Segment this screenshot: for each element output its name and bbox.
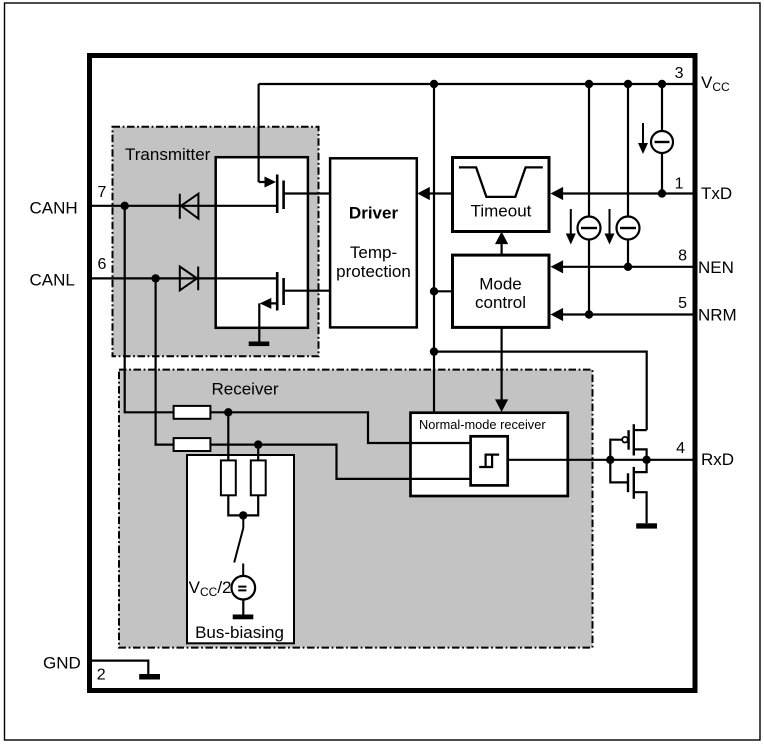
- svg-text:GND: GND: [43, 653, 81, 672]
- svg-text:TxD: TxD: [701, 184, 732, 203]
- node I1 top: [585, 80, 593, 88]
- transistor Q2 gate bar: [282, 278, 285, 305]
- transistor Q4 (RxD N-MOS) gate wire: [610, 460, 627, 483]
- mode control block: [453, 255, 550, 327]
- wire CANH to termination resistor R1: [125, 206, 174, 412]
- transistor Q1 (high-side P-MOS) channel: [276, 175, 279, 214]
- svg-text:3: 3: [675, 65, 684, 82]
- wire to RxD output stage supply: [434, 352, 647, 431]
- wire mode control to normal-mode receiver: [501, 327, 503, 399]
- node at 434/351: [430, 347, 438, 355]
- switch S1 (bus biasing): [234, 515, 243, 576]
- voltage source VCC/2: [232, 576, 256, 600]
- wire CANL to termination resistor R2: [156, 278, 174, 444]
- wire Q2 gate to driver: [284, 290, 331, 292]
- transistor Q4 gate bar: [627, 473, 629, 492]
- timeout pulse waveform: [459, 167, 543, 197]
- arrow into timeout right: [551, 187, 564, 200]
- driver block U-drv: [330, 158, 417, 327]
- node at VCC/434: [430, 80, 438, 88]
- svg-text:protection: protection: [336, 262, 411, 281]
- arrow at Q2 source: [260, 298, 272, 309]
- resistor R1: [174, 406, 211, 419]
- current source I3 circle: [651, 131, 673, 153]
- svg-text:CANH: CANH: [30, 198, 78, 217]
- arrow into timeout: [495, 232, 508, 245]
- current source I1 circle: [578, 217, 601, 240]
- transmitter output-stage box: [216, 157, 308, 328]
- current source I2 circle: [617, 217, 640, 240]
- wire Q4 source to ground: [634, 492, 647, 523]
- node I2 top: [624, 80, 632, 88]
- wire timeout output to driver: [429, 192, 453, 194]
- wire NEN pin to mode control: [562, 266, 697, 268]
- wire receiver inputs inside box: [411, 443, 471, 479]
- wire stub to mode control: [434, 290, 453, 292]
- ground (bus biasing): [233, 615, 254, 620]
- ground (RxD stage): [636, 523, 657, 528]
- wire Q2 source to ground: [259, 303, 277, 341]
- svg-text:7: 7: [98, 184, 107, 201]
- svg-text:4: 4: [676, 440, 685, 457]
- svg-text:NEN: NEN: [698, 258, 734, 277]
- wire NRM pin to mode control: [562, 313, 697, 315]
- node RxD out: [642, 456, 650, 464]
- ground (GND pin): [139, 674, 160, 680]
- current source I3 TxD pull-up: [661, 84, 663, 194]
- resistor R3 (vertical): [221, 460, 236, 495]
- node NEN/I2: [624, 263, 632, 271]
- svg-text:CANL: CANL: [30, 271, 75, 290]
- transmitter block (gray dash-dot box): [113, 127, 319, 356]
- arrow current I2: [609, 209, 611, 234]
- svg-text:Normal-mode receiver: Normal-mode receiver: [419, 417, 546, 432]
- diode D2 (CANL, cathode right): [180, 267, 198, 291]
- node TxD/I3: [658, 189, 666, 197]
- svg-text:NRM: NRM: [698, 306, 737, 325]
- wire Q3 drain: [634, 449, 647, 459]
- arrow into driver: [417, 187, 430, 200]
- wire RxD output to pin4: [647, 459, 697, 461]
- wire Q4 drain: [634, 460, 647, 472]
- wire VCC rail: [259, 83, 697, 85]
- node bias common: [239, 511, 247, 519]
- node CANH junction: [121, 202, 129, 210]
- ground (transmitter stage): [249, 342, 270, 347]
- arrow into transistor Q1 source: [265, 177, 277, 188]
- current source I1 pull-up rail: [588, 84, 590, 315]
- wire comparator output to RxD stage: [508, 459, 647, 461]
- wire R3/R4 common node: [228, 495, 258, 515]
- transistor Q2 (low-side N-MOS) channel: [276, 272, 279, 311]
- node R1 out: [224, 408, 232, 416]
- wire Q3 source: [634, 429, 647, 431]
- svg-text:2: 2: [97, 667, 106, 684]
- transistor Q3 (RxD P-MOS) gate wire: [610, 440, 622, 460]
- receiver block (gray dash-dot box): [119, 370, 593, 648]
- node RxD gate: [606, 456, 614, 464]
- wire VCC to P-MOSFET source: [259, 84, 265, 182]
- svg-text:Transmitter: Transmitter: [125, 145, 211, 164]
- wire R1 to receiver input: [210, 412, 410, 443]
- resistor R2: [174, 438, 211, 451]
- node NRM/I1: [585, 310, 593, 318]
- Q3 gate bubble: [622, 437, 628, 443]
- transistor Q1 gate bar: [282, 181, 285, 210]
- svg-text:6: 6: [98, 256, 107, 273]
- svg-text:8: 8: [678, 248, 687, 265]
- wire Q1 gate to driver: [284, 192, 331, 194]
- hysteresis symbol: [479, 455, 499, 467]
- node R2 out: [254, 440, 262, 448]
- svg-text:1: 1: [675, 176, 684, 193]
- wire source to ground: [242, 600, 244, 615]
- wire into bias resistor R3: [227, 412, 229, 460]
- wire TxD internal rail (x=434): [433, 84, 435, 413]
- timeout block: [453, 158, 550, 232]
- svg-text:Driver: Driver: [349, 204, 399, 223]
- wire TxD pin to timeout: [562, 192, 697, 194]
- diode D1 (CANH, cathode left): [180, 194, 199, 219]
- svg-text:control: control: [475, 293, 526, 312]
- normal-mode receiver box: [411, 413, 568, 496]
- transistor Q4 channel: [633, 467, 635, 499]
- arrow into mode control (NEN): [551, 260, 564, 273]
- bus-biasing box: [187, 455, 294, 643]
- arrow into normal-mode receiver: [495, 399, 508, 412]
- svg-text:RxD: RxD: [701, 450, 734, 469]
- svg-text:Receiver: Receiver: [212, 380, 279, 399]
- arrow into mode control (NRM): [551, 308, 564, 321]
- transistor Q3 channel: [633, 424, 635, 455]
- svg-text:5: 5: [678, 295, 687, 312]
- wire R2 to receiver input: [210, 445, 410, 479]
- svg-text:Bus-biasing: Bus-biasing: [195, 623, 284, 642]
- arrow current I1: [570, 209, 572, 234]
- resistor R4 (vertical): [251, 460, 266, 495]
- transistor Q3 gate bar: [627, 430, 629, 450]
- node I3 top: [658, 80, 666, 88]
- svg-text:Mode: Mode: [479, 274, 522, 293]
- wire into bias resistor R4: [257, 445, 259, 461]
- wire CANH line pin7 to Q1 drain: [92, 205, 277, 207]
- wire GND pin2: [92, 661, 148, 674]
- svg-text:Temp-: Temp-: [350, 243, 397, 262]
- node at mode stub: [430, 287, 438, 295]
- comparator (hysteresis) box: [471, 436, 508, 485]
- IC boundary: [90, 56, 696, 691]
- arrow current I3: [642, 123, 644, 144]
- node CANL junction: [151, 274, 159, 282]
- wire mode control to timeout: [501, 243, 503, 255]
- wire CANL line pin6 to Q2 drain: [92, 277, 277, 279]
- current source I2 pull-up rail: [627, 84, 629, 267]
- svg-text:Timeout: Timeout: [471, 202, 532, 221]
